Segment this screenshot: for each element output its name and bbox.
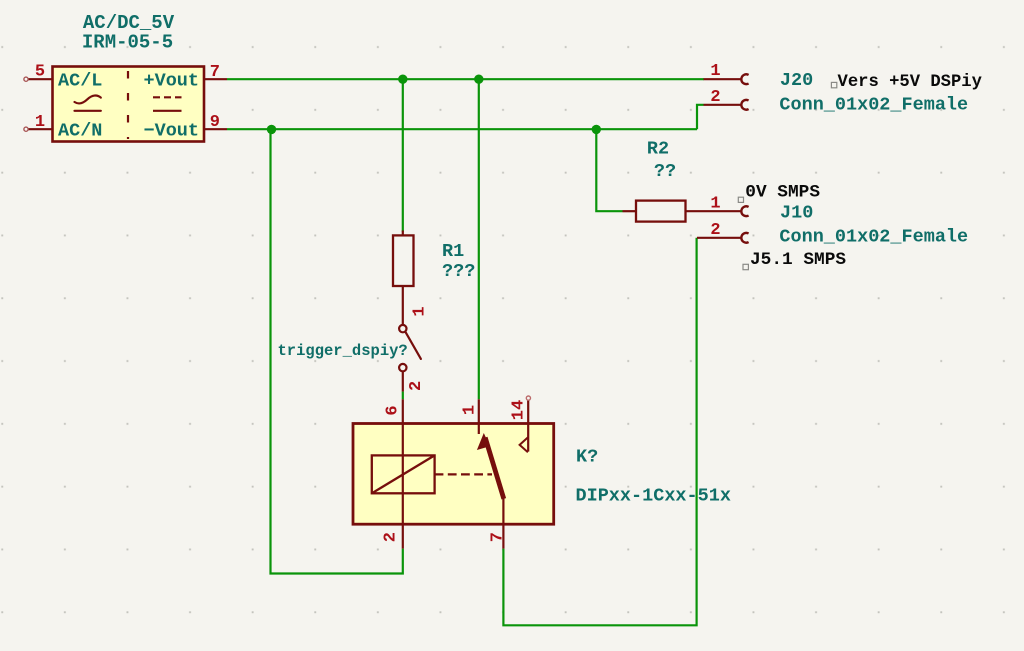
svg-text:2: 2 — [382, 532, 401, 542]
relay K pin number 7 — [489, 532, 508, 542]
connector J10 pin 1 female arc — [741, 206, 748, 216]
svg-text:14: 14 — [509, 400, 528, 420]
pin 7 +Vout stub — [204, 78, 227, 80]
svg-text:Conn_01x02_Female: Conn_01x02_Female — [779, 95, 968, 116]
svg-text:J5.1 SMPS: J5.1 SMPS — [750, 250, 846, 270]
wire top rail down to relay pin 1 — [478, 79, 480, 399]
svg-text:IRM-05-5: IRM-05-5 — [82, 32, 173, 54]
junction 0V rail at left loop — [267, 125, 276, 134]
svg-text:K?: K? — [576, 447, 598, 468]
relay K coil diagonal — [372, 455, 435, 493]
svg-text:5: 5 — [35, 63, 45, 82]
svg-text:1: 1 — [710, 194, 720, 213]
power module PS body AC/DC_5V — [53, 67, 205, 142]
connector J10 pin 2 stub — [697, 237, 741, 239]
svg-text:1: 1 — [460, 405, 479, 415]
svg-text:2: 2 — [710, 221, 720, 240]
svg-text:7: 7 — [489, 532, 508, 542]
relay K pin number 6 — [383, 405, 402, 415]
text Vers +5V DSPiy anchor — [831, 82, 836, 87]
svg-text:9: 9 — [210, 113, 220, 132]
svg-text:J20: J20 — [780, 70, 813, 91]
relay K pin number 2 — [382, 532, 401, 542]
relay K pin 7 stub — [502, 524, 504, 548]
text J5.1 SMPS anchor — [743, 264, 748, 269]
svg-text:J10: J10 — [780, 203, 813, 224]
relay K NC contact triangle — [520, 437, 528, 452]
power module separator dashed line — [127, 71, 129, 139]
svg-text:Vers +5V DSPiy: Vers +5V DSPiy — [838, 73, 982, 92]
wire riser to J20 pin 2 — [697, 105, 704, 129]
relay K NC contact line — [527, 424, 529, 452]
svg-text:???: ??? — [442, 261, 475, 282]
connector J10 pin 2 female arc — [741, 233, 748, 243]
relay K pin 7 inner line — [502, 498, 504, 525]
power module DC symbol — [153, 97, 182, 111]
relay K pin 1 stub — [478, 399, 480, 423]
junction top rail at R1 branch — [398, 75, 407, 84]
relay K pin number 14 — [509, 400, 528, 420]
svg-text:0V SMPS: 0V SMPS — [745, 183, 820, 203]
svg-text:trigger_dspiy?: trigger_dspiy? — [278, 342, 408, 360]
connector J20 pin 2 stub — [704, 104, 742, 106]
svg-text:??: ?? — [654, 161, 676, 182]
relay K pin 14 unconnected circle — [526, 396, 530, 400]
relay K body — [353, 424, 554, 525]
pin 1 AC/N stub — [24, 127, 53, 131]
wire top rail down to R1 — [402, 79, 404, 231]
wire +5V top rail — [227, 78, 704, 80]
svg-text:1: 1 — [411, 306, 430, 316]
svg-text:6: 6 — [383, 405, 402, 415]
relay K pin 2 stub — [402, 524, 404, 548]
resistor R2 body — [636, 201, 686, 222]
resistor R2 left lead — [623, 210, 637, 212]
junction top rail at relay branch — [474, 75, 483, 84]
wire 0V to R2 — [596, 129, 622, 211]
svg-text:DIPxx-1Cxx-51x: DIPxx-1Cxx-51x — [576, 486, 731, 507]
switch SW upper contact — [399, 325, 406, 332]
switch SW blade — [406, 332, 421, 359]
relay K pin 14 stub — [527, 400, 529, 423]
wire relay pin 2 to bottom left loop — [271, 129, 403, 573]
resistor R1 body — [393, 235, 414, 286]
resistor R1 top lead — [402, 231, 404, 236]
relay K pin 6 stub — [402, 399, 404, 423]
switch SW pin 2 lead — [402, 371, 404, 391]
wire switch to relay pin 6 — [402, 392, 404, 400]
svg-text:Conn_01x02_Female: Conn_01x02_Female — [779, 227, 968, 248]
svg-text:1: 1 — [710, 62, 720, 81]
connector J20 pin 2 female arc — [741, 100, 748, 110]
svg-text:2: 2 — [710, 88, 720, 107]
switch SW pin number 1 — [411, 306, 430, 316]
relay K armature blade — [485, 438, 504, 499]
relay K coil through line — [402, 424, 404, 525]
svg-text:AC/L: AC/L — [58, 71, 102, 92]
svg-text:AC/DC_5V: AC/DC_5V — [83, 12, 175, 34]
junction 0V rail at R2 branch — [592, 125, 601, 134]
relay K armature arrow — [477, 433, 490, 450]
relay K coil box — [372, 455, 435, 493]
svg-text:7: 7 — [210, 63, 220, 82]
power module AC symbol — [75, 96, 101, 111]
pin 9 -Vout stub — [204, 128, 227, 130]
svg-text:R2: R2 — [647, 138, 669, 159]
svg-text:−Vout: −Vout — [143, 121, 199, 142]
pin 5 AC/L stub — [24, 77, 53, 81]
text 0V SMPS anchor — [738, 197, 743, 202]
svg-text:1: 1 — [35, 113, 45, 132]
svg-text:2: 2 — [407, 381, 426, 391]
resistor R2 right lead — [686, 210, 742, 212]
connector J20 pin 1 female arc — [741, 74, 748, 84]
svg-text:AC/N: AC/N — [58, 121, 102, 142]
wire 0V rail — [227, 128, 697, 130]
switch SW pin 1 lead — [402, 305, 404, 325]
switch SW pin number 2 — [407, 381, 426, 391]
wire relay pin 7 to J10 pin 2 — [503, 238, 696, 626]
svg-text:+Vout: +Vout — [143, 71, 199, 92]
relay K common contact line — [478, 424, 480, 435]
svg-text:R1: R1 — [442, 241, 464, 262]
relay K pin number 1 — [460, 405, 479, 415]
connector J20 pin 1 stub — [704, 78, 742, 80]
relay K actuation dashed link — [435, 473, 492, 475]
switch SW lower contact — [399, 364, 406, 371]
resistor R1 bottom lead — [402, 286, 404, 305]
